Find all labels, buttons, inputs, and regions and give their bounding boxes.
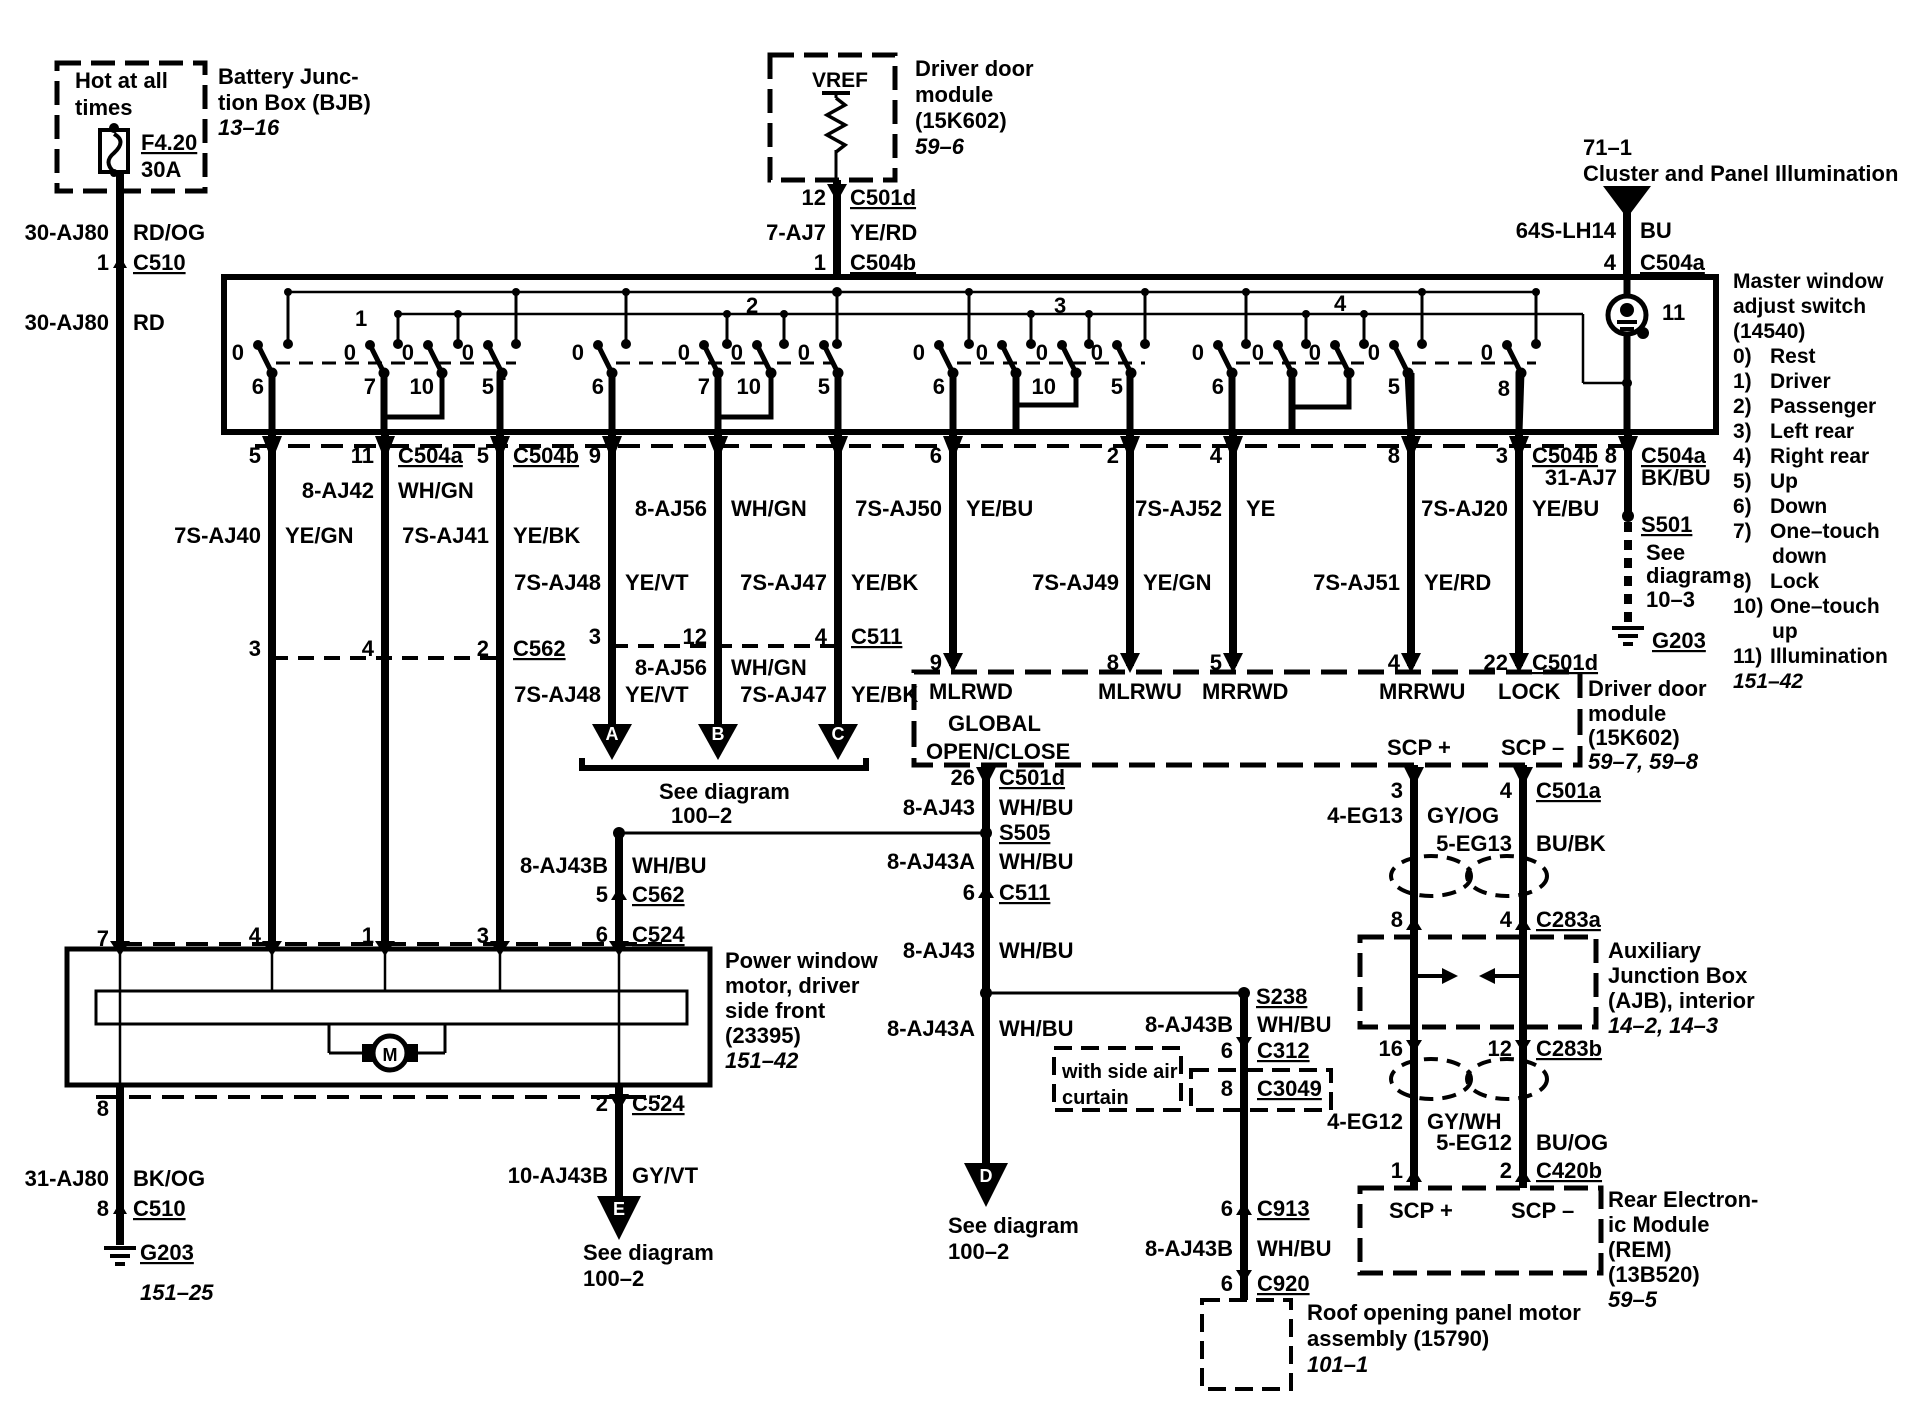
svg-text:6: 6	[1212, 374, 1224, 399]
svg-text:with side air: with side air	[1061, 1061, 1178, 1083]
svg-text:MRRWU: MRRWU	[1379, 679, 1465, 704]
svg-text:Right rear: Right rear	[1770, 445, 1869, 468]
svg-text:BU: BU	[1640, 218, 1672, 243]
svg-text:8-AJ43A: 8-AJ43A	[887, 1016, 975, 1041]
svg-text:MLRWD: MLRWD	[929, 679, 1013, 704]
svg-text:C312: C312	[1257, 1038, 1310, 1063]
svg-text:(14540): (14540)	[1733, 320, 1805, 343]
svg-text:7): 7)	[1733, 520, 1752, 543]
svg-text:6: 6	[1221, 1196, 1233, 1221]
svg-text:6: 6	[1221, 1271, 1233, 1296]
svg-text:BU/OG: BU/OG	[1536, 1130, 1608, 1155]
svg-text:S501: S501	[1641, 512, 1692, 537]
svg-text:8: 8	[1391, 907, 1403, 932]
svg-text:WH/GN: WH/GN	[731, 655, 807, 680]
svg-text:5: 5	[1111, 374, 1123, 399]
svg-text:RD: RD	[133, 310, 165, 335]
svg-text:See diagram: See diagram	[583, 1240, 714, 1265]
svg-text:Power window: Power window	[725, 948, 879, 973]
svg-text:100–2: 100–2	[671, 803, 732, 828]
svg-text:Lock: Lock	[1770, 570, 1819, 593]
svg-text:side front: side front	[725, 998, 826, 1023]
svg-text:diagram: diagram	[1646, 563, 1732, 588]
svg-text:1: 1	[1391, 1158, 1403, 1183]
svg-text:C420b: C420b	[1536, 1158, 1602, 1183]
svg-text:C562: C562	[632, 882, 685, 907]
svg-text:C3049: C3049	[1257, 1076, 1322, 1101]
svg-text:C283a: C283a	[1536, 907, 1602, 932]
svg-text:8: 8	[97, 1196, 109, 1221]
svg-text:9: 9	[589, 443, 601, 468]
svg-text:Illumination: Illumination	[1770, 645, 1888, 668]
svg-text:G203: G203	[140, 1240, 194, 1265]
svg-text:down: down	[1772, 545, 1827, 568]
svg-text:8: 8	[1221, 1076, 1233, 1101]
svg-text:up: up	[1772, 620, 1798, 643]
svg-text:12: 12	[802, 185, 826, 210]
svg-text:6: 6	[1221, 1038, 1233, 1063]
svg-text:3: 3	[589, 624, 601, 649]
svg-text:5: 5	[818, 374, 830, 399]
svg-text:Down: Down	[1770, 495, 1827, 518]
svg-text:13–16: 13–16	[218, 115, 280, 140]
svg-text:59–7, 59–8: 59–7, 59–8	[1588, 749, 1699, 774]
svg-text:BK/OG: BK/OG	[133, 1166, 205, 1191]
svg-text:C510: C510	[133, 1196, 186, 1221]
svg-text:YE/VT: YE/VT	[625, 682, 689, 707]
svg-text:times: times	[75, 95, 132, 120]
svg-text:0: 0	[678, 340, 690, 365]
svg-text:8: 8	[1498, 376, 1510, 401]
svg-text:7S-AJ47: 7S-AJ47	[740, 682, 827, 707]
svg-text:1): 1)	[1733, 370, 1752, 393]
svg-text:Rest: Rest	[1770, 345, 1816, 368]
svg-text:7S-AJ48: 7S-AJ48	[514, 570, 601, 595]
svg-text:10-AJ43B: 10-AJ43B	[508, 1163, 608, 1188]
svg-text:Auxiliary: Auxiliary	[1608, 938, 1702, 963]
svg-text:59–5: 59–5	[1608, 1287, 1658, 1312]
svg-text:30-AJ80: 30-AJ80	[25, 310, 109, 335]
svg-text:(AJB), interior: (AJB), interior	[1608, 988, 1755, 1013]
svg-text:7S-AJ50: 7S-AJ50	[855, 496, 942, 521]
svg-text:5: 5	[477, 443, 489, 468]
svg-text:7S-AJ48: 7S-AJ48	[514, 682, 601, 707]
svg-text:WH/BU: WH/BU	[999, 795, 1074, 820]
svg-text:100–2: 100–2	[948, 1239, 1009, 1264]
svg-text:100–2: 100–2	[583, 1266, 644, 1291]
svg-text:Up: Up	[1770, 470, 1798, 493]
svg-text:(REM): (REM)	[1608, 1237, 1672, 1262]
svg-text:YE/BU: YE/BU	[1532, 496, 1599, 521]
svg-text:151–42: 151–42	[725, 1048, 799, 1073]
svg-text:(15K602): (15K602)	[915, 108, 1007, 133]
svg-text:Master window: Master window	[1733, 270, 1884, 293]
svg-text:14–2, 14–3: 14–2, 14–3	[1608, 1013, 1718, 1038]
svg-text:Left rear: Left rear	[1770, 420, 1854, 443]
svg-text:0: 0	[1309, 340, 1321, 365]
svg-text:C510: C510	[133, 250, 186, 275]
svg-text:101–1: 101–1	[1307, 1352, 1368, 1377]
svg-text:Passenger: Passenger	[1770, 395, 1876, 418]
svg-text:Driver: Driver	[1770, 370, 1831, 393]
svg-text:31-AJ80: 31-AJ80	[25, 1166, 109, 1191]
svg-text:5): 5)	[1733, 470, 1752, 493]
svg-text:10): 10)	[1733, 595, 1763, 618]
svg-text:7: 7	[364, 374, 376, 399]
svg-text:SCP +: SCP +	[1389, 1198, 1453, 1223]
svg-text:Driver door: Driver door	[1588, 676, 1707, 701]
svg-text:4: 4	[1500, 778, 1513, 803]
svg-text:10: 10	[410, 374, 434, 399]
svg-text:C501a: C501a	[1536, 778, 1602, 803]
svg-text:C: C	[832, 724, 845, 744]
svg-text:16: 16	[1379, 1036, 1403, 1061]
svg-text:7S-AJ51: 7S-AJ51	[1313, 570, 1400, 595]
svg-text:OPEN/CLOSE: OPEN/CLOSE	[926, 739, 1070, 764]
svg-text:0: 0	[798, 340, 810, 365]
svg-text:M: M	[383, 1045, 398, 1065]
svg-text:151–42: 151–42	[1733, 670, 1803, 693]
svg-text:30-AJ80: 30-AJ80	[25, 220, 109, 245]
svg-text:0: 0	[462, 340, 474, 365]
svg-text:7S-AJ20: 7S-AJ20	[1421, 496, 1508, 521]
svg-text:S505: S505	[999, 820, 1050, 845]
svg-text:See diagram: See diagram	[659, 779, 790, 804]
svg-text:6: 6	[933, 374, 945, 399]
svg-text:YE/RD: YE/RD	[1424, 570, 1491, 595]
svg-text:4: 4	[1604, 250, 1617, 275]
svg-text:YE/BK: YE/BK	[851, 570, 918, 595]
svg-text:10: 10	[1032, 374, 1056, 399]
svg-text:(13B520): (13B520)	[1608, 1262, 1700, 1287]
svg-text:31-AJ7: 31-AJ7	[1545, 465, 1617, 490]
svg-text:SCP +: SCP +	[1387, 735, 1451, 760]
svg-text:64S-LH14: 64S-LH14	[1516, 218, 1617, 243]
svg-text:8-AJ56: 8-AJ56	[635, 496, 707, 521]
svg-text:Roof opening panel motor: Roof opening panel motor	[1307, 1300, 1581, 1325]
svg-text:6: 6	[592, 374, 604, 399]
svg-text:RD/OG: RD/OG	[133, 220, 205, 245]
svg-text:7S-AJ41: 7S-AJ41	[402, 523, 489, 548]
svg-text:Junction Box: Junction Box	[1608, 963, 1748, 988]
svg-text:C501d: C501d	[999, 765, 1065, 790]
svg-text:11: 11	[351, 443, 374, 468]
svg-text:C913: C913	[1257, 1196, 1310, 1221]
svg-text:1: 1	[355, 306, 367, 331]
svg-text:WH/GN: WH/GN	[731, 496, 807, 521]
svg-text:7S-AJ49: 7S-AJ49	[1032, 570, 1119, 595]
svg-text:5: 5	[249, 443, 261, 468]
svg-text:One–touch: One–touch	[1770, 520, 1880, 543]
svg-text:11: 11	[1662, 300, 1685, 325]
svg-text:B: B	[712, 724, 725, 744]
svg-text:4-EG13: 4-EG13	[1327, 803, 1403, 828]
svg-text:0: 0	[572, 340, 584, 365]
svg-text:D: D	[980, 1166, 993, 1186]
svg-text:7-AJ7: 7-AJ7	[766, 220, 826, 245]
svg-text:(23395): (23395)	[725, 1023, 801, 1048]
svg-text:26: 26	[951, 765, 975, 790]
svg-text:7S-AJ40: 7S-AJ40	[174, 523, 261, 548]
svg-text:8-AJ42: 8-AJ42	[302, 478, 374, 503]
svg-text:10–3: 10–3	[1646, 587, 1695, 612]
svg-text:C504a: C504a	[398, 443, 464, 468]
svg-text:3: 3	[1496, 443, 1508, 468]
svg-text:0): 0)	[1733, 345, 1752, 368]
svg-text:S238: S238	[1256, 984, 1307, 1009]
svg-text:4: 4	[1210, 443, 1223, 468]
svg-text:BU/BK: BU/BK	[1536, 831, 1606, 856]
svg-text:C504b: C504b	[513, 443, 579, 468]
svg-text:1: 1	[97, 250, 109, 275]
svg-text:2: 2	[746, 293, 758, 318]
svg-text:6): 6)	[1733, 495, 1752, 518]
svg-text:Rear Electron-: Rear Electron-	[1608, 1187, 1758, 1212]
svg-text:Hot at all: Hot at all	[75, 68, 168, 93]
svg-text:Cluster and Panel Illumination: Cluster and Panel Illumination	[1583, 161, 1898, 186]
svg-text:tion Box (BJB): tion Box (BJB)	[218, 90, 371, 115]
svg-text:10: 10	[737, 374, 761, 399]
svg-text:C920: C920	[1257, 1271, 1310, 1296]
svg-text:0: 0	[976, 340, 988, 365]
svg-text:6: 6	[252, 374, 264, 399]
svg-text:3: 3	[249, 636, 261, 661]
svg-text:71–1: 71–1	[1583, 135, 1632, 160]
svg-text:0: 0	[232, 340, 244, 365]
svg-text:0: 0	[1252, 340, 1264, 365]
svg-text:adjust switch: adjust switch	[1733, 295, 1866, 318]
svg-text:0: 0	[731, 340, 743, 365]
svg-text:See diagram: See diagram	[948, 1213, 1079, 1238]
svg-text:assembly (15790): assembly (15790)	[1307, 1326, 1489, 1351]
svg-text:4: 4	[1334, 291, 1347, 316]
svg-text:0: 0	[402, 340, 414, 365]
svg-text:5-EG12: 5-EG12	[1436, 1130, 1512, 1155]
svg-text:5-EG13: 5-EG13	[1436, 831, 1512, 856]
svg-text:5: 5	[1388, 374, 1400, 399]
svg-text:3: 3	[1054, 293, 1066, 318]
svg-text:4): 4)	[1733, 445, 1752, 468]
svg-text:11): 11)	[1733, 645, 1762, 668]
svg-text:C562: C562	[513, 636, 566, 661]
svg-text:SCP –: SCP –	[1501, 735, 1564, 760]
svg-text:GY/OG: GY/OG	[1427, 803, 1499, 828]
svg-text:7S-AJ47: 7S-AJ47	[740, 570, 827, 595]
svg-text:8-AJ43A: 8-AJ43A	[887, 849, 975, 874]
svg-text:A: A	[606, 724, 619, 744]
svg-text:8-AJ43B: 8-AJ43B	[1145, 1236, 1233, 1261]
svg-text:0: 0	[344, 340, 356, 365]
svg-text:MLRWU: MLRWU	[1098, 679, 1182, 704]
svg-text:One–touch: One–touch	[1770, 595, 1880, 618]
svg-text:C504b: C504b	[850, 250, 916, 275]
svg-text:WH/BU: WH/BU	[999, 938, 1074, 963]
svg-text:5: 5	[596, 882, 608, 907]
svg-text:BK/BU: BK/BU	[1641, 465, 1711, 490]
svg-text:C511: C511	[851, 624, 902, 649]
svg-text:0: 0	[1481, 340, 1493, 365]
svg-text:ic Module: ic Module	[1608, 1212, 1709, 1237]
svg-text:YE/GN: YE/GN	[285, 523, 353, 548]
svg-text:curtain: curtain	[1062, 1087, 1129, 1109]
svg-text:2: 2	[1500, 1158, 1512, 1183]
svg-text:0: 0	[913, 340, 925, 365]
svg-text:C511: C511	[999, 880, 1050, 905]
svg-text:WH/GN: WH/GN	[398, 478, 474, 503]
svg-text:2): 2)	[1733, 395, 1752, 418]
svg-text:8-AJ43: 8-AJ43	[903, 938, 975, 963]
svg-text:5: 5	[482, 374, 494, 399]
svg-text:GLOBAL: GLOBAL	[948, 711, 1041, 736]
svg-text:G203: G203	[1652, 628, 1706, 653]
svg-text:VREF: VREF	[812, 69, 868, 92]
svg-text:motor, driver: motor, driver	[725, 973, 860, 998]
svg-text:1: 1	[814, 250, 826, 275]
svg-text:MRRWD: MRRWD	[1202, 679, 1288, 704]
svg-text:LOCK: LOCK	[1498, 679, 1560, 704]
svg-text:8-AJ43B: 8-AJ43B	[1145, 1012, 1233, 1037]
svg-text:WH/BU: WH/BU	[999, 1016, 1074, 1041]
svg-text:8: 8	[97, 1096, 109, 1121]
svg-text:0: 0	[1192, 340, 1204, 365]
svg-text:30A: 30A	[141, 157, 181, 182]
svg-text:0: 0	[1368, 340, 1380, 365]
svg-text:6: 6	[963, 880, 975, 905]
svg-text:WH/BU: WH/BU	[1257, 1236, 1332, 1261]
svg-text:3: 3	[1391, 778, 1403, 803]
svg-text:C283b: C283b	[1536, 1036, 1602, 1061]
svg-text:6: 6	[930, 443, 942, 468]
svg-text:Driver door: Driver door	[915, 56, 1034, 81]
svg-text:module: module	[1588, 701, 1666, 726]
svg-text:59–6: 59–6	[915, 134, 965, 159]
svg-text:F4.20: F4.20	[141, 130, 197, 155]
svg-text:YE: YE	[1246, 496, 1275, 521]
svg-text:8-AJ56: 8-AJ56	[635, 655, 707, 680]
svg-text:Battery Junc-: Battery Junc-	[218, 64, 359, 89]
svg-text:7: 7	[698, 374, 710, 399]
svg-text:C524: C524	[632, 1091, 685, 1116]
svg-text:YE/GN: YE/GN	[1143, 570, 1211, 595]
svg-text:8): 8)	[1733, 570, 1752, 593]
svg-text:YE/BU: YE/BU	[966, 496, 1033, 521]
svg-text:3): 3)	[1733, 420, 1752, 443]
svg-text:8: 8	[1388, 443, 1400, 468]
svg-text:module: module	[915, 82, 993, 107]
svg-text:0: 0	[1091, 340, 1103, 365]
svg-text:4: 4	[1500, 907, 1513, 932]
svg-text:E: E	[613, 1199, 625, 1219]
svg-text:(15K602): (15K602)	[1588, 725, 1680, 750]
svg-text:YE/VT: YE/VT	[625, 570, 689, 595]
svg-text:0: 0	[1036, 340, 1048, 365]
svg-text:SCP –: SCP –	[1511, 1198, 1574, 1223]
svg-text:C504a: C504a	[1640, 250, 1706, 275]
svg-text:YE/RD: YE/RD	[850, 220, 917, 245]
svg-text:7S-AJ52: 7S-AJ52	[1135, 496, 1222, 521]
svg-text:GY/VT: GY/VT	[632, 1163, 699, 1188]
svg-text:WH/BU: WH/BU	[999, 849, 1074, 874]
svg-text:151–25: 151–25	[140, 1280, 214, 1305]
svg-text:2: 2	[596, 1091, 608, 1116]
svg-text:YE/BK: YE/BK	[513, 523, 580, 548]
svg-text:C501d: C501d	[850, 185, 916, 210]
svg-text:WH/BU: WH/BU	[632, 853, 707, 878]
svg-text:WH/BU: WH/BU	[1257, 1012, 1332, 1037]
svg-text:See: See	[1646, 540, 1685, 565]
svg-text:8-AJ43B: 8-AJ43B	[520, 853, 608, 878]
svg-text:8-AJ43: 8-AJ43	[903, 795, 975, 820]
svg-text:2: 2	[1107, 443, 1119, 468]
svg-text:YE/BK: YE/BK	[851, 682, 918, 707]
svg-text:4-EG12: 4-EG12	[1327, 1109, 1403, 1134]
